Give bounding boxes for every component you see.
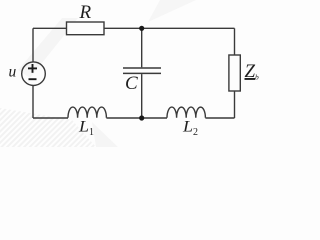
svg-text:u: u: [9, 64, 17, 81]
svg-text:R: R: [79, 2, 92, 23]
junction node top (capacitor/top wire): [139, 26, 144, 31]
resistor R body: [67, 22, 105, 35]
svg-text:Z: Z: [245, 61, 256, 82]
junction node bottom (capacitor/bottom wire): [139, 115, 144, 120]
impedance Z body: [229, 55, 240, 91]
wire capacitor branch lower: [141, 74, 143, 118]
watermark band bottom-left: [0, 0, 196, 147]
source circle: [22, 62, 46, 86]
capacitor C bottom plate: [123, 72, 161, 74]
svg-text:L: L: [78, 119, 89, 136]
wire left branch lower: [32, 86, 34, 119]
wire bottom: left corner to L1: [33, 117, 68, 119]
source minus sign: [29, 78, 37, 80]
wire bottom: L1 to L2: [106, 117, 167, 119]
source plus sign: [28, 64, 37, 79]
wire top: resistor to junction and to right corner: [104, 27, 235, 29]
svg-text:b: b: [255, 73, 259, 82]
wire top: left corner to resistor: [33, 27, 67, 29]
svg-text:1: 1: [89, 127, 94, 138]
svg-text:C: C: [125, 73, 138, 94]
inductor L1 coil: [68, 107, 106, 118]
svg-text:L: L: [182, 119, 193, 136]
inductor L2 coil: [167, 107, 205, 118]
wire capacitor branch upper: [141, 28, 143, 67]
svg-text:2: 2: [193, 127, 198, 138]
wire right branch lower: [234, 91, 236, 118]
wire right branch upper: [234, 28, 236, 55]
capacitor C top plate: [123, 67, 161, 69]
wire bottom: L2 to right corner: [205, 117, 234, 119]
wire left branch upper: [32, 28, 34, 62]
